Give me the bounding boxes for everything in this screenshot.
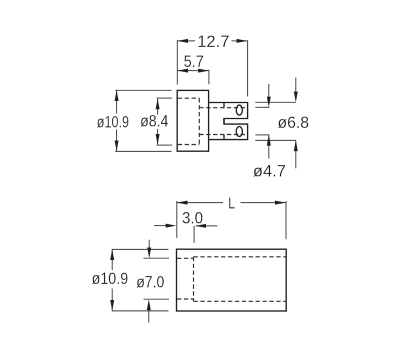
svg-text:ø10.9: ø10.9: [92, 269, 129, 288]
dimension Ø4.7: [255, 84, 269, 159]
svg-text:ø4.7: ø4.7: [253, 162, 286, 181]
svg-text:12.7: 12.7: [197, 32, 229, 51]
top view: prong outline (upper prong): [209, 103, 248, 140]
dimension 3.0: [154, 226, 217, 243]
dimension L: [177, 201, 286, 239]
top view: hidden inner bore dashed lines (Ø4.7): [199, 108, 247, 135]
svg-text:L: L: [228, 196, 235, 213]
dimension 5.7: [177, 70, 209, 85]
svg-text:ø7.0: ø7.0: [136, 273, 164, 292]
top view: hole in upper prong: [236, 105, 242, 115]
svg-text:3.0: 3.0: [182, 208, 203, 227]
svg-text:5.7: 5.7: [184, 52, 204, 71]
bottom view: spacer body outline: [177, 249, 287, 311]
dimension 12.7: [177, 40, 247, 96]
dimension Ø7.0: [144, 240, 170, 323]
top view: clip body outline: [177, 90, 208, 151]
dimension Ø10.9 (bottom view): [112, 249, 169, 311]
svg-text:ø6.8: ø6.8: [278, 113, 310, 132]
svg-text:ø10.9: ø10.9: [97, 112, 129, 131]
dimension Ø8.4: [157, 98, 172, 145]
svg-text:ø8.4: ø8.4: [140, 111, 168, 130]
top view: slot closed end: [223, 103, 225, 140]
bottom view: hidden bore dashed (Ø7.0 section): [177, 257, 286, 302]
dimension Ø10.9 (top view): [115, 90, 171, 151]
dimension Ø6.8: [255, 78, 295, 169]
top view: hidden bore dashed lines (Ø8.4): [178, 98, 200, 144]
top view: hole in lower prong: [236, 127, 242, 137]
